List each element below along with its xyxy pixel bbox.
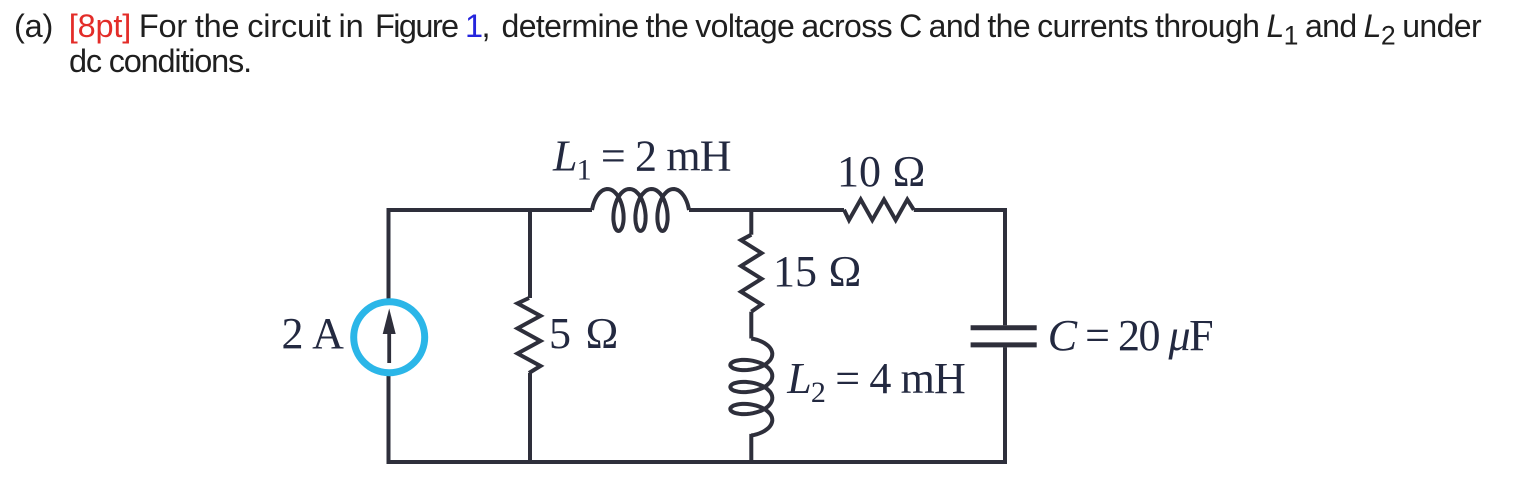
problem statement line 1a: [14, 8, 363, 45]
wire middle branch below L2: [749, 434, 753, 462]
wire 5-ohm branch below: [528, 373, 532, 462]
wire middle branch between 15-ohm and L2: [749, 312, 753, 339]
problem statement line 1b: [375, 8, 489, 45]
svg-text:2 A: 2 A: [282, 309, 345, 358]
svg-text:L2 = 4 mH: L2 = 4 mH: [786, 354, 965, 409]
wire 5-ohm branch above: [528, 210, 532, 298]
resistor 15 ohm: [741, 235, 762, 312]
wire left vertical above source: [387, 210, 391, 300]
svg-text:C = 20 μF: C = 20 μF: [1048, 311, 1212, 360]
svg-text:L1 = 2 mH: L1 = 2 mH: [552, 131, 731, 186]
inductor L1: [592, 189, 689, 231]
wire left vertical below source: [387, 375, 391, 462]
current source circle: [354, 302, 425, 373]
wire top-left segment: [389, 208, 593, 210]
capacitor C plates: [971, 328, 1037, 345]
svg-text:10 Ω: 10 Ω: [837, 147, 926, 196]
wire right vertical below capacitor: [1003, 347, 1007, 462]
current source arrow: [383, 309, 396, 364]
inductor L2: [730, 339, 772, 436]
wire top-middle segment: [689, 208, 844, 212]
svg-text:5 Ω: 5 Ω: [549, 309, 619, 358]
wire middle branch above 15-ohm: [749, 210, 753, 235]
svg-text:15 Ω: 15 Ω: [773, 247, 862, 296]
wire top-right segment: [914, 210, 1005, 325]
wire bottom: [387, 460, 1008, 464]
problem statement line 1c: [502, 8, 1482, 51]
resistor 10 ohm: [844, 200, 914, 221]
problem statement line 2: [69, 43, 251, 80]
resistor 5 ohm: [518, 298, 541, 373]
